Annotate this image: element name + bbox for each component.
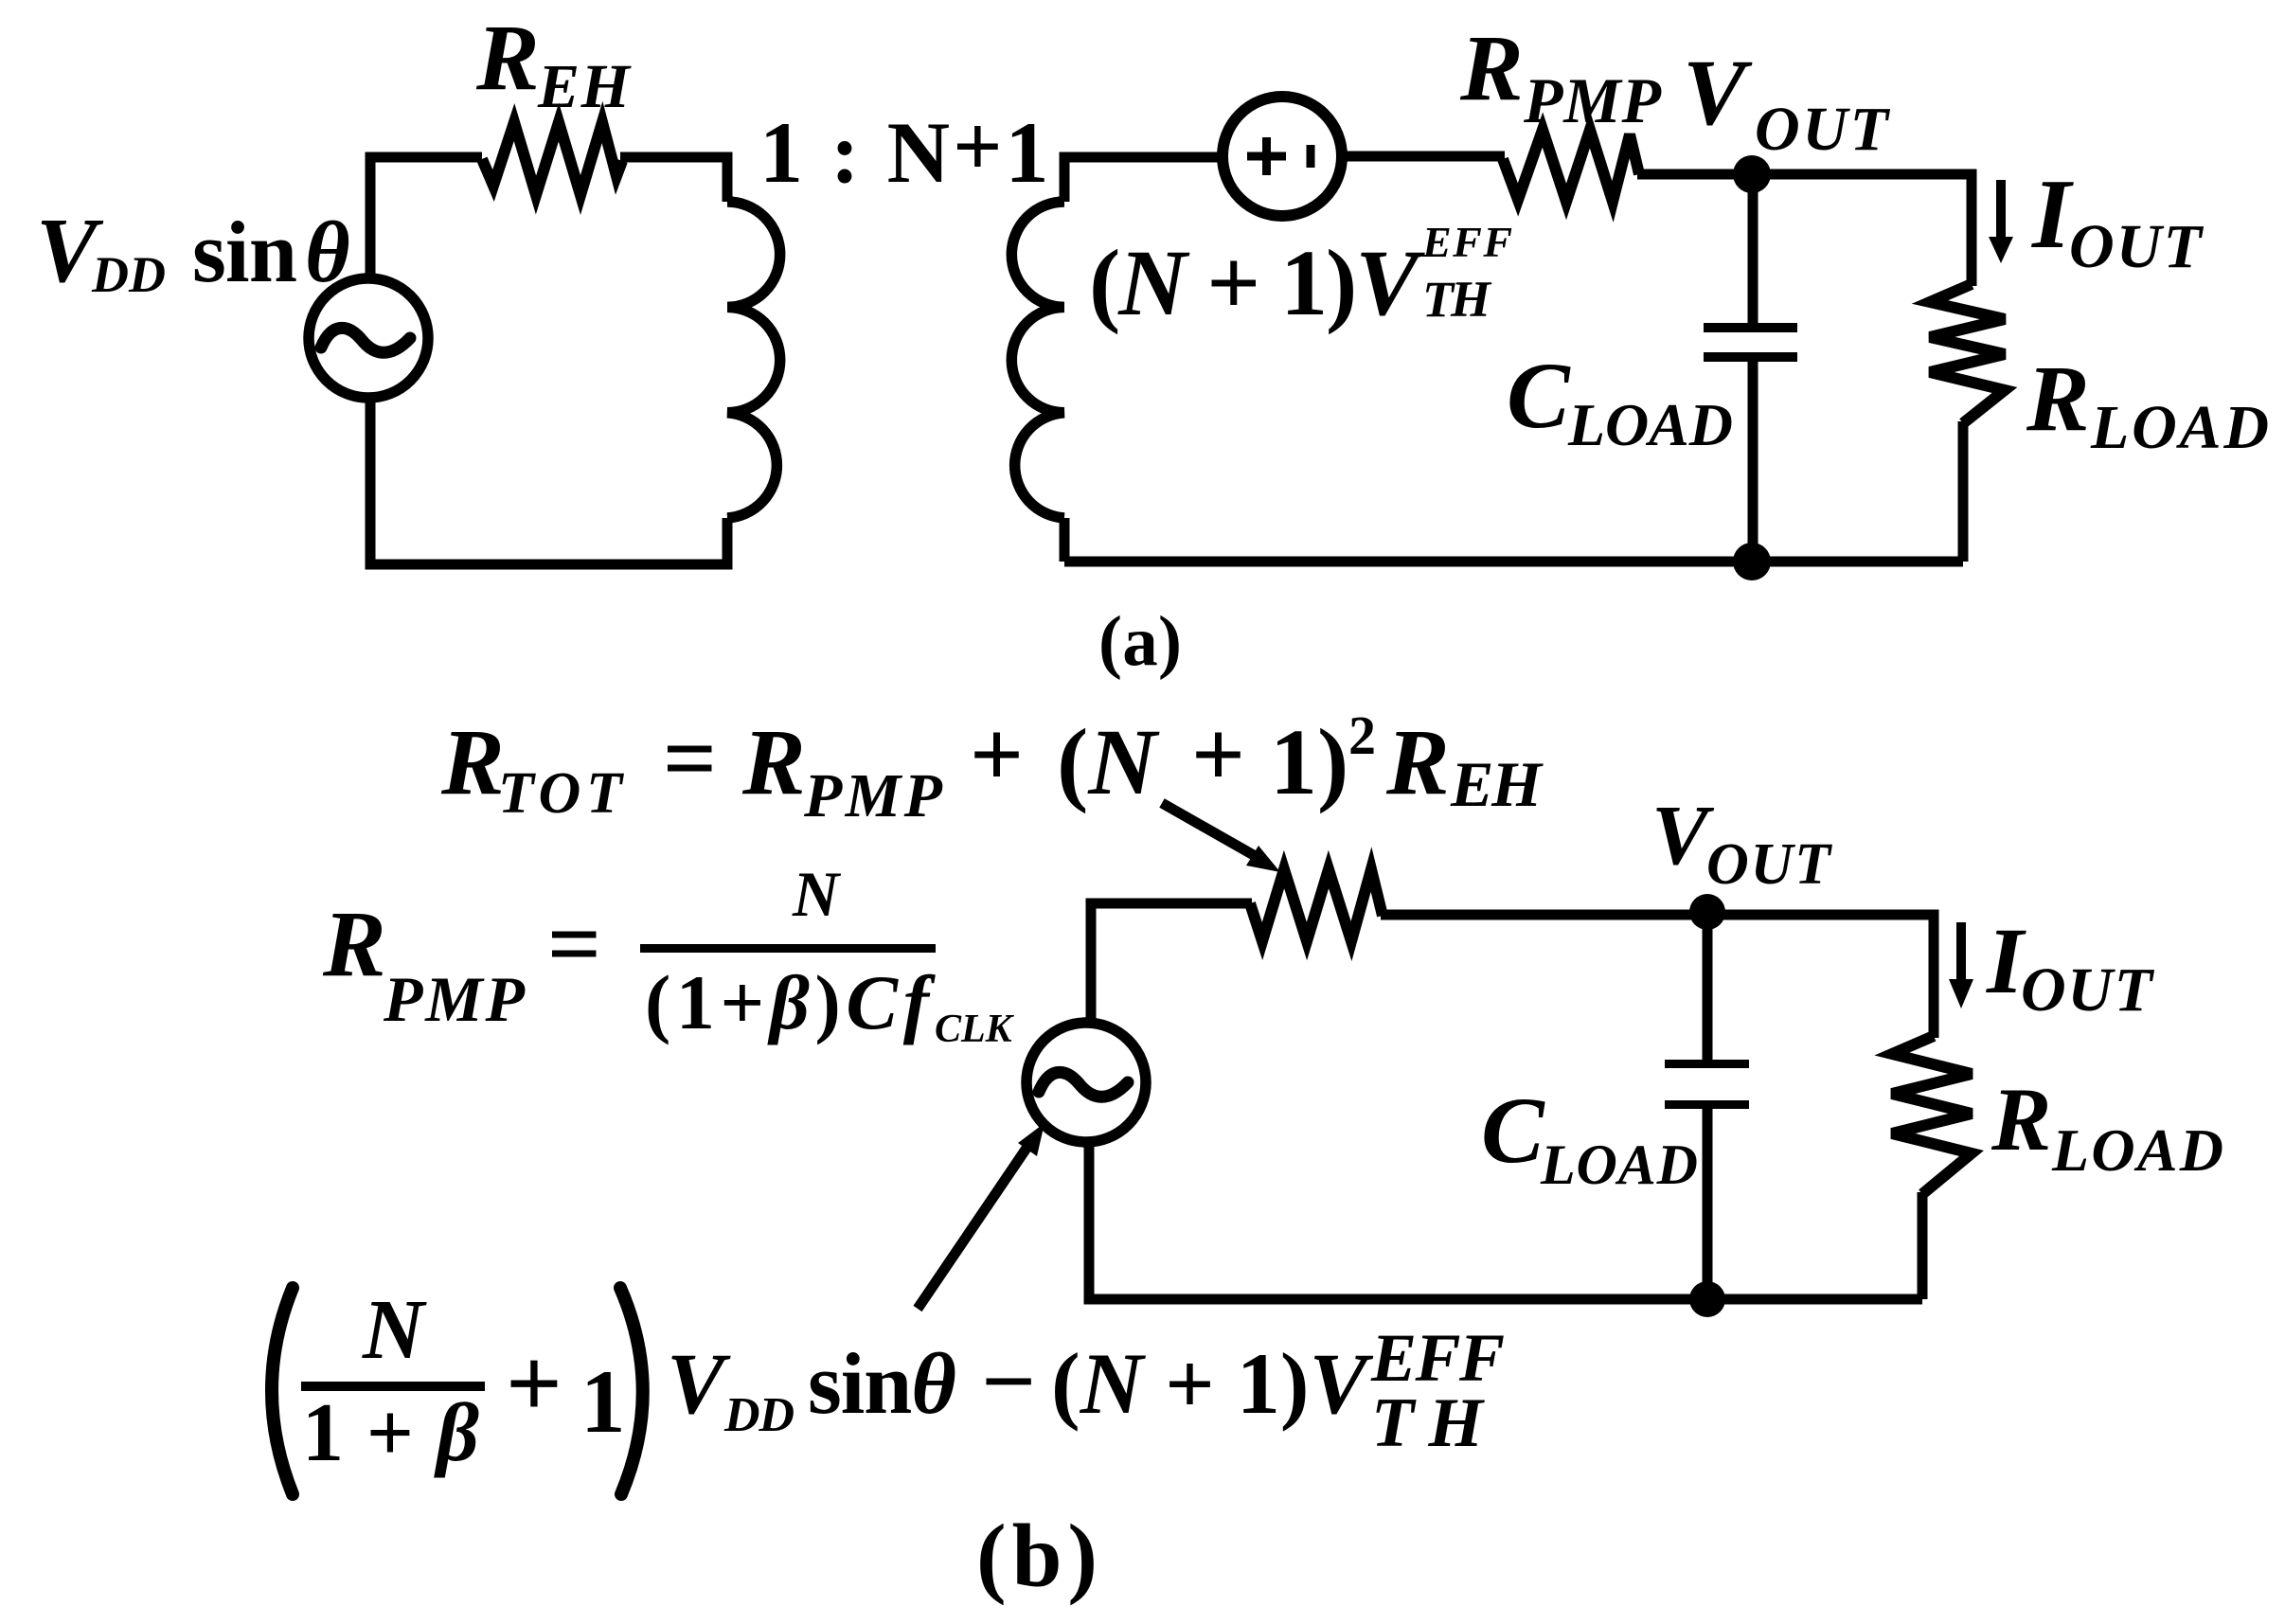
capacitor C_LOAD (a) plates [1704, 323, 1797, 332]
svg-text:EFF: EFF [1421, 218, 1512, 266]
svg-text:1 + β: 1 + β [302, 1387, 479, 1479]
node rail dot (b) [1689, 1281, 1725, 1317]
svg-text:C: C [1481, 1078, 1545, 1183]
I_OUT arrowhead (a) [1989, 237, 2013, 263]
minus tick inside source [1307, 145, 1315, 168]
plus sign inside source [1247, 137, 1286, 175]
svg-text:1: 1 [580, 1351, 626, 1452]
capacitor C_LOAD (a) wires [1748, 174, 1758, 562]
svg-text:OUT: OUT [2021, 955, 2155, 1025]
svg-text:I: I [2030, 158, 2074, 269]
svg-text:−: − [981, 1329, 1036, 1434]
I_OUT arrow shaft (b) [1956, 922, 1966, 981]
svg-text:LOAD: LOAD [2051, 1116, 2223, 1184]
fraction bar [301, 1382, 485, 1391]
capacitor C_LOAD (b) plates [1665, 1060, 1749, 1068]
wire: secondary top stub to dependent source [1064, 157, 1223, 202]
svg-text:DD: DD [91, 246, 166, 303]
AC source V1 circle (a) [309, 278, 428, 398]
svg-text:R: R [741, 709, 806, 814]
svg-text:sin: sin [192, 204, 297, 300]
transformer T1 secondary coil [1011, 202, 1064, 518]
AC source V1 sine glyph [321, 328, 410, 352]
wire: (a) resistor REH right to transformer primary top stub [620, 157, 727, 202]
svg-text:R: R [1459, 15, 1524, 120]
svg-text:N: N [362, 1283, 427, 1377]
svg-text:OUT: OUT [1755, 95, 1891, 164]
svg-text:R: R [2026, 346, 2090, 451]
svg-text:=: = [547, 891, 601, 996]
svg-text:+: + [970, 702, 1024, 807]
svg-text:(a): (a) [1098, 602, 1182, 681]
svg-text:C: C [1507, 343, 1571, 448]
svg-text:sinθ: sinθ [808, 1335, 956, 1432]
resistor R_PMP [1503, 130, 1639, 202]
node V_OUT dot (a) [1733, 155, 1771, 193]
svg-text:OUT: OUT [1706, 832, 1832, 897]
AC source sine glyph (b) [1039, 1072, 1128, 1097]
svg-text:V: V [1683, 40, 1753, 145]
svg-text:OUT: OUT [2069, 212, 2205, 281]
svg-text:V: V [1651, 789, 1715, 883]
svg-text:DD: DD [723, 1388, 794, 1442]
svg-text:EH: EH [1450, 748, 1544, 820]
svg-text:LOAD: LOAD [2090, 393, 2269, 462]
svg-text:(1+β)Cf: (1+β)Cf [645, 959, 937, 1045]
svg-text:TH: TH [1422, 271, 1492, 328]
svg-text:EH: EH [537, 52, 633, 121]
wire: source to resistor RPMP [1342, 152, 1505, 162]
svg-text:V: V [667, 1335, 731, 1432]
svg-text:TH: TH [1371, 1384, 1485, 1462]
AC source circle (b) [1026, 1023, 1146, 1142]
svg-text:(N: (N [1057, 709, 1160, 814]
I_OUT arrow (a) [1996, 180, 2006, 239]
wire: (a) left loop top and left [370, 157, 482, 276]
svg-text:(N + 1)V: (N + 1)V [1051, 1335, 1374, 1432]
svg-text:LOAD: LOAD [1540, 1133, 1698, 1196]
resistor R_EH [482, 122, 622, 195]
svg-text:1): 1) [1270, 709, 1348, 814]
svg-text:(b): (b) [976, 1506, 1098, 1606]
big left paren [272, 1288, 293, 1494]
svg-text:(N + 1)V: (N + 1)V [1089, 230, 1425, 335]
svg-text:R: R [1385, 709, 1450, 814]
svg-text:CLK: CLK [935, 1008, 1015, 1051]
svg-text:+: + [1191, 702, 1245, 807]
wire: resistor to VOUT node to right corner (b) [1381, 915, 1934, 1038]
svg-text:R: R [1990, 1069, 2051, 1169]
wire: RLOAD bottom stub (b) [1918, 1192, 1928, 1299]
node V_OUT dot (b) [1689, 894, 1725, 930]
svg-text:=: = [663, 705, 717, 811]
svg-text:PMP: PMP [1523, 64, 1661, 136]
wire: secondary bottom stub [1060, 518, 1070, 562]
svg-text:2: 2 [1348, 705, 1376, 766]
arrow from formula to AC source (b) [918, 1123, 1044, 1309]
resistor R_LOAD (a) [1930, 284, 2005, 423]
transformer T1 primary coil [727, 202, 780, 518]
big right paren [620, 1288, 643, 1494]
svg-text:R: R [440, 709, 505, 814]
resistor R_LOAD (b) [1892, 1036, 1972, 1194]
svg-text:1 : N+1: 1 : N+1 [759, 98, 1052, 201]
wire: (a) primary bottom stub, bottom rail, left column bottom [370, 401, 727, 564]
capacitor C_LOAD (b) wires [1703, 912, 1713, 1299]
svg-text:θ: θ [305, 204, 350, 300]
svg-text:N: N [792, 858, 842, 930]
svg-text:R: R [475, 5, 540, 110]
wire: RLOAD bottom stub (a) [1958, 421, 1969, 562]
wire: (b) bottom rail and left bottom column [1089, 1144, 1922, 1299]
arrow from equation to resistor R_TOT [1162, 803, 1280, 872]
wire: (b) left column and top to resistor [1091, 903, 1252, 1021]
wire: (a) bottom rail [1064, 557, 1963, 567]
wire: RPMP to VOUT node to top-right corner [1637, 174, 1972, 286]
svg-text:+: + [506, 1328, 562, 1438]
svg-text:PMP: PMP [383, 963, 525, 1035]
svg-text:PMP: PMP [803, 761, 943, 830]
svg-text:TOT: TOT [498, 761, 624, 826]
dependent voltage source circle (N+1)VTH [1223, 97, 1342, 216]
I_OUT arrowhead (b) [1949, 979, 1973, 1008]
resistor R_TOT (b) [1250, 869, 1383, 941]
svg-text:LOAD: LOAD [1567, 391, 1733, 458]
svg-text:R: R [322, 891, 386, 996]
node ground-rail dot (a) [1733, 543, 1771, 580]
circuit (b) wires [1026, 869, 1972, 1299]
